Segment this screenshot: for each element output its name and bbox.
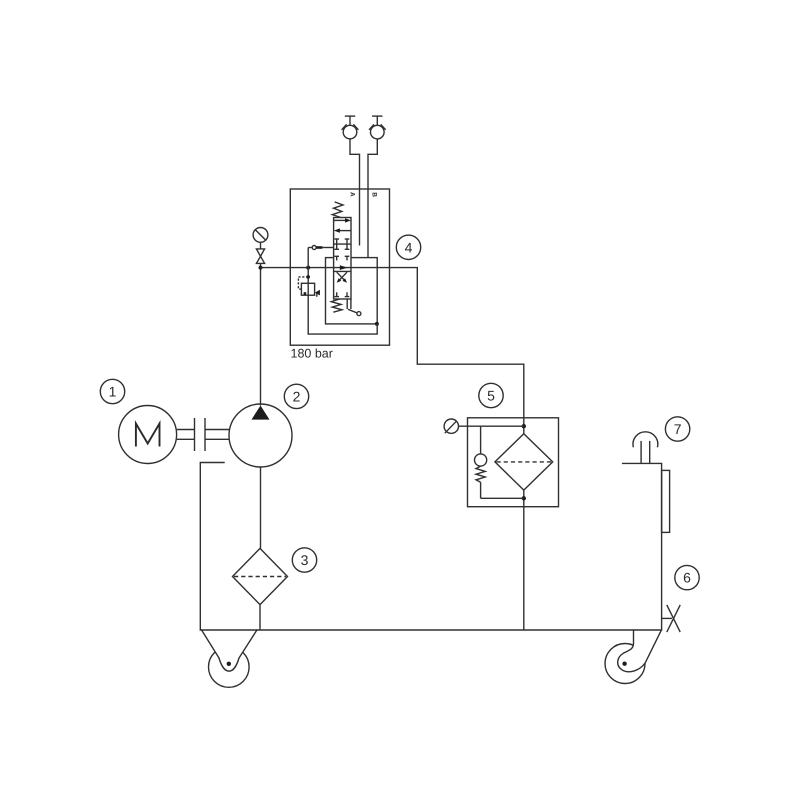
svg-text:B: B	[370, 192, 377, 197]
svg-text:6: 6	[683, 570, 691, 586]
svg-text:3: 3	[301, 552, 309, 568]
svg-text:4: 4	[405, 239, 413, 255]
svg-text:2: 2	[293, 388, 301, 404]
svg-text:A: A	[348, 192, 355, 197]
svg-text:180 bar: 180 bar	[291, 347, 333, 361]
svg-text:5: 5	[487, 388, 495, 404]
svg-text:7: 7	[674, 421, 682, 437]
svg-text:1: 1	[109, 384, 117, 400]
